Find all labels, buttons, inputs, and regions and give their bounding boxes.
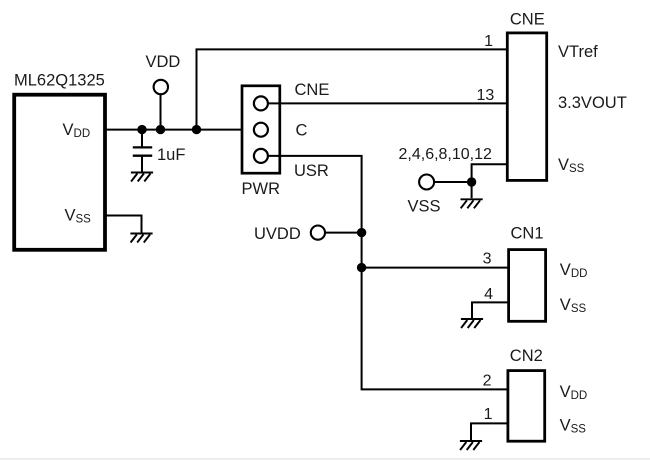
ground below CN2 pin 1	[460, 441, 482, 450]
svg-text:VDD: VDD	[146, 53, 181, 71]
ground below CN1 pin 4	[461, 319, 483, 328]
wire CNE VSS pins stub	[472, 164, 508, 182]
svg-text:CNE: CNE	[295, 81, 330, 99]
svg-text:ML62Q1325: ML62Q1325	[14, 72, 105, 90]
wire CN2 pin 1 to ground	[471, 423, 508, 440]
node junction dot at CN1 branch	[357, 263, 366, 272]
svg-text:CN1: CN1	[511, 225, 544, 243]
svg-text:CNE: CNE	[510, 11, 545, 29]
svg-text:3: 3	[483, 250, 492, 267]
node junction dot at C1	[137, 125, 146, 134]
svg-text:VTref: VTref	[558, 43, 598, 61]
connector CN1 body	[509, 250, 546, 322]
wire VDD net to CNE pin 1	[197, 49, 508, 129]
capacitor C1 bottom lead	[141, 156, 143, 172]
svg-text:2: 2	[483, 372, 492, 389]
wire USR net: PWR.USR down to CN2 pin 2	[268, 156, 508, 390]
svg-text:3.3VOUT: 3.3VOUT	[558, 94, 627, 112]
ground below C1	[131, 173, 153, 182]
svg-text:13: 13	[477, 87, 495, 104]
svg-text:1uF: 1uF	[157, 146, 185, 164]
wire PWR.CNE to CNE pin 13	[268, 102, 508, 104]
page edge line (faint)	[0, 458, 650, 460]
wire VSS junction to ground	[471, 182, 473, 198]
svg-text:1: 1	[484, 33, 493, 50]
svg-text:PWR: PWR	[242, 180, 281, 198]
wire branch to CN1 pin 3	[362, 267, 509, 269]
ground below VSS junction	[461, 199, 483, 208]
svg-text:4: 4	[484, 286, 493, 303]
ground below U1.VSS	[130, 234, 152, 243]
wire UVDD terminal to USR net	[325, 232, 362, 234]
IC U1 ML62Q1325 body	[14, 95, 105, 250]
connector CNE body	[507, 33, 546, 181]
svg-text:VSS: VSS	[560, 296, 587, 315]
svg-text:VSS: VSS	[408, 197, 441, 215]
svg-text:VDD: VDD	[560, 383, 588, 402]
supply terminal VDD circle	[154, 80, 168, 94]
PWR pin circle C	[254, 123, 268, 137]
svg-text:CN2: CN2	[510, 347, 543, 365]
svg-text:VSS: VSS	[558, 156, 585, 175]
terminal UVDD circle	[311, 226, 325, 240]
svg-text:VSS: VSS	[560, 417, 587, 436]
wire CN1 pin 4 to ground	[472, 302, 509, 318]
node junction dot at CNE pin1 branch	[192, 125, 201, 134]
wire VSS terminal to junction	[434, 181, 471, 183]
wire VDD terminal stem	[160, 94, 162, 129]
svg-text:C: C	[296, 122, 308, 140]
capacitor C1 plates	[133, 147, 152, 155]
PWR pin circle CNE	[254, 96, 268, 110]
wire U1.VSS to ground	[105, 216, 142, 233]
terminal VSS circle	[419, 175, 434, 190]
svg-text:USR: USR	[294, 162, 329, 180]
PWR pin circle USR	[254, 149, 268, 163]
connector PWR body	[242, 86, 280, 173]
node junction dot at VDD supply	[156, 125, 165, 134]
wire VDD net: U1.VDD to PWR pin C	[105, 129, 254, 131]
capacitor C1 top lead	[141, 130, 143, 148]
node junction dot VSS net	[467, 177, 476, 186]
node junction dot at UVDD	[357, 228, 366, 237]
svg-text:VDD: VDD	[560, 261, 588, 280]
svg-text:UVDD: UVDD	[254, 225, 301, 243]
svg-text:2,4,6,8,10,12: 2,4,6,8,10,12	[399, 146, 493, 163]
svg-text:1: 1	[484, 406, 493, 423]
connector CN2 body	[508, 371, 545, 442]
